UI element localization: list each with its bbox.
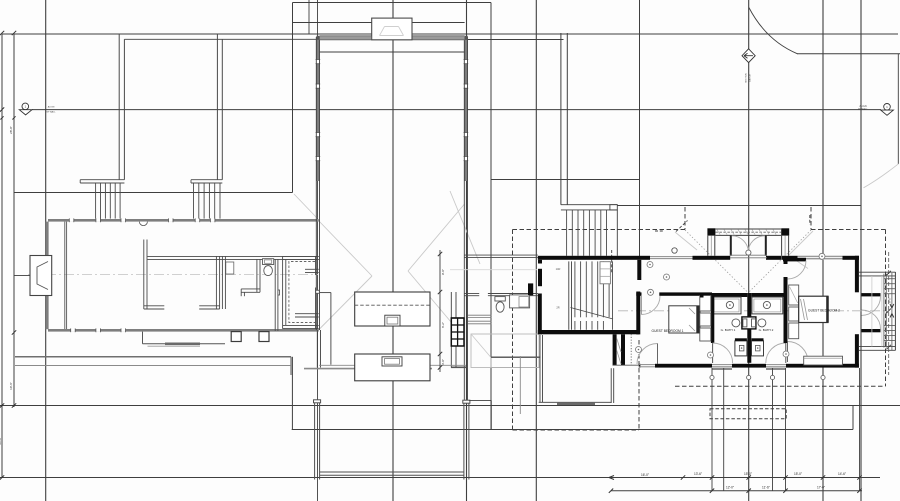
roof edge top y=2.5 (293, 2, 492, 4)
south porch line (148, 345, 201, 347)
grid line vertical x=639.5 (639, 0, 641, 256)
dashed roof line x=685 (684, 207, 686, 230)
door tag circle (819, 253, 825, 259)
bath1 west wall black (711, 293, 714, 343)
svg-text:8'-0": 8'-0" (888, 297, 892, 303)
room1 south wall left leaf (144, 305, 165, 307)
svg-text:14R: 14R (556, 267, 561, 271)
toilet bath 1 (732, 319, 740, 327)
pantry run east line (330, 293, 332, 365)
stair break line (571, 308, 614, 320)
dimension row 1 ticks (681, 475, 685, 479)
stair hall north wall black (538, 256, 650, 260)
bath1 door leaf (712, 343, 714, 363)
porch post A (231, 332, 241, 342)
dashed roof line y=229.5 right part (811, 229, 886, 231)
svg-text:15'-0": 15'-0" (744, 472, 752, 476)
svg-text:10'-6": 10'-6" (9, 382, 13, 390)
terrace rail east cap (463, 400, 470, 403)
hall top wall cap west (316, 36, 319, 40)
svg-text:W/ WALL: W/ WALL (858, 108, 869, 111)
witness circle (821, 375, 825, 379)
grid line vertical G x=748.7 (748, 0, 750, 501)
closet partition y=270 (305, 268, 319, 270)
left dim2 ticks (12, 330, 16, 334)
stair side wall x=617 (616, 210, 618, 256)
range grid (451, 318, 464, 346)
hall closet east wall black (621, 334, 625, 365)
witness line (859, 368, 861, 491)
medicine niche (742, 317, 756, 329)
deck width dim 8ft (891, 273, 893, 350)
dashed roof line x=639 lower (638, 340, 640, 430)
door tag circle (664, 274, 670, 280)
terrace edge line y=357 (15, 356, 291, 358)
svg-text:G. BATH 2: G. BATH 2 (759, 328, 774, 332)
road line y=54 top right (797, 53, 900, 55)
roof line y=39.5 right (468, 39, 564, 41)
grid line vertical F x=536.3 (535, 0, 537, 501)
chimney firebox trapezoid (380, 27, 404, 36)
stair hall east wall black lower (636, 292, 640, 335)
door tag circle (647, 262, 653, 268)
dresser bedroom2 (804, 356, 843, 365)
curb arc right edge (864, 164, 899, 188)
porch post B (259, 332, 269, 342)
landing newel cap (610, 205, 617, 210)
property line x=895.4 deck right (894, 272, 896, 350)
grid line vertical I x=861 (860, 0, 862, 501)
roof line y=39.3 left wing (124, 38, 317, 40)
terrace upper edge (304, 368, 432, 370)
south step-out wall (142, 332, 144, 344)
lower terrace south wall (539, 401, 612, 403)
vanity bath 1 (712, 297, 741, 314)
bedroom2 bath door swing (788, 342, 809, 363)
entry door tag circle (746, 250, 751, 255)
bath north wall black (711, 293, 747, 297)
north wall black segment B (693, 256, 731, 260)
svg-text:2R: 2R (556, 306, 559, 310)
bed 2 foot dark (826, 296, 829, 322)
svg-text:W/ WALL: W/ WALL (46, 110, 56, 113)
bed 2 (799, 296, 828, 322)
window gap hall east wall (464, 157, 467, 161)
setback line y=109 (32, 109, 881, 111)
island 1 sink (385, 315, 400, 326)
counter lines y=316 (468, 314, 491, 316)
bed 2 pillows (801, 299, 805, 320)
door tag circle (783, 351, 789, 357)
deck inner rails (883, 274, 885, 348)
north wall window (650, 256, 693, 258)
hall top wall gray band left (320, 36, 371, 40)
hall top interior line y=52 (320, 51, 465, 53)
hall top wall cap east (465, 36, 468, 40)
bath centre wall black (747, 293, 751, 363)
table top dark edge (491, 356, 540, 358)
dashed entry corner left (676, 221, 688, 232)
south step-out dark segment (165, 343, 200, 346)
island 2 sink (382, 357, 402, 366)
dining table diagonal (471, 334, 491, 358)
stair A risers (95, 183, 97, 219)
closet bedroom1 boxes (700, 296, 711, 312)
hall west wall edge lines (315, 37, 317, 330)
roof corner line x=292.5 (292, 3, 294, 193)
powder counter (510, 295, 530, 308)
roof hip left wing NE (294, 194, 317, 218)
deck top edge (859, 271, 896, 273)
room2 west wall (221, 256, 223, 309)
dimension line y=477.5 (0, 477, 880, 479)
window gap bottom wall (96, 329, 101, 332)
north arrow diamond (742, 49, 755, 63)
bed 1 (669, 306, 700, 333)
roof hip entry right (748, 230, 811, 293)
dashed roof line y=386 (675, 385, 886, 387)
window gap bottom wall (121, 329, 126, 332)
kitchen south line y=365.3 (319, 364, 466, 366)
pantry run top cap (319, 292, 331, 294)
grid line vertical A x=2 (1, 34, 3, 478)
svg-text:13'-6": 13'-6" (694, 472, 702, 476)
left dim ticks (0, 107, 4, 111)
entry step black (783, 258, 806, 262)
closet south thin line (613, 364, 640, 366)
bedroom1 south door swing (637, 344, 658, 365)
window gap hall west wall (316, 60, 319, 64)
closet hatch (617, 338, 621, 352)
island 1 dashed counter line (355, 304, 430, 306)
roof hip east V upper (408, 204, 465, 271)
dashed stub right of entry (809, 215, 811, 225)
window gap hall west wall (316, 84, 319, 88)
stair hall west wall black upper (538, 260, 542, 264)
room1 south wall right leaf (199, 305, 219, 307)
wc wall end cap (240, 289, 242, 296)
kitchen dim line (439, 250, 441, 372)
dashed roof line x=885.5 (885, 230, 887, 387)
entry corner post right (781, 228, 789, 235)
roof hip stair hall (450, 191, 480, 264)
bedroom2 west wall black upper (784, 260, 788, 264)
deck board lines (871, 276, 873, 347)
wardrobe bedroom2 (789, 285, 799, 305)
closet outer walls (283, 255, 319, 257)
svg-text:3'-0": 3'-0" (441, 359, 445, 365)
svg-text:6'-2": 6'-2" (441, 322, 445, 328)
interior wall line x=65 (64, 222, 66, 329)
powder room north wall B (488, 293, 538, 295)
roof hip entry left (685, 230, 748, 293)
dashed stub bedroom hall (611, 250, 613, 273)
dashed roof line y=430 (513, 429, 640, 431)
fireplace tick (14, 275, 30, 277)
bench hallway (600, 262, 610, 284)
bedroom1 north wall black (636, 292, 641, 295)
driveway arc top right (749, 8, 798, 54)
bed 1 headboard dark (696, 306, 700, 333)
roof eave line y=192.5 (14, 192, 293, 194)
black jamb stair hall door (528, 283, 533, 295)
door notch semicircle top wall (139, 222, 147, 226)
bedroom1 entry door swing (642, 296, 661, 315)
room1 west wall (143, 240, 145, 310)
north wall black segment C (766, 256, 781, 260)
kitchen island 2 / outdoor table (355, 354, 430, 381)
lavatory room2 (226, 262, 234, 274)
door tag circle (648, 289, 654, 295)
svg-text:14'-6": 14'-6" (838, 472, 846, 476)
dimension row 2 ticks (609, 489, 613, 493)
closet east wall upper (315, 256, 317, 275)
window gap top wall (210, 219, 215, 222)
hall top wall gray band right (412, 36, 465, 40)
bath1 door swing (713, 343, 733, 363)
grid line vertical B x=14 (13, 34, 15, 407)
tick y33 left (0, 31, 4, 35)
svg-text:G. BATH 1: G. BATH 1 (721, 328, 736, 332)
elevation marker left circle (22, 103, 29, 110)
roof hip east V lower (408, 271, 465, 338)
window gap hall west wall (316, 157, 319, 161)
centreline left wing (28, 274, 318, 276)
entry door post left (730, 236, 732, 256)
window gap top wall (195, 219, 200, 222)
exterior stair risers upper (566, 210, 568, 256)
deck bottom edge (859, 346, 896, 348)
fireplace chase left (30, 256, 52, 296)
powder room north wall A (465, 293, 480, 295)
dashed line left of entry (655, 230, 665, 232)
roof line x=291.7 lower (290, 357, 292, 375)
south wall window 1 (639, 364, 655, 366)
south wall window 3 (766, 364, 786, 366)
wc foot wall (241, 288, 260, 290)
closet bedroom1 west wall black (700, 293, 704, 298)
svg-text:GUEST BEDROOM 1: GUEST BEDROOM 1 (652, 329, 684, 333)
witness line (772, 368, 774, 491)
tick marks below y109 (0, 116, 3, 119)
hall top wall edge lines (320, 35, 465, 37)
toilet bath 2 (758, 319, 766, 327)
bridge rails (560, 33, 562, 205)
dashed skylight rect (710, 409, 786, 419)
hall east wall lower (463, 330, 465, 400)
guest wing north wall black (782, 256, 860, 260)
powder toilet tank (495, 297, 505, 301)
deck treads bottom (884, 325, 895, 327)
entry door post right (765, 236, 767, 256)
roof hip guest SE (790, 256, 809, 269)
toilet bowl (264, 266, 273, 276)
svg-text:11'-6": 11'-6" (762, 485, 770, 489)
entry side wall right (781, 236, 783, 256)
svg-text:DATUM: DATUM (749, 74, 752, 82)
closet east wall lower (315, 288, 317, 329)
shower bath 1 (735, 341, 747, 356)
upper level stub x=309 (308, 0, 310, 34)
svg-text:36'-0": 36'-0" (0, 437, 2, 445)
wc west wall (256, 259, 258, 292)
east French door swing arcs (862, 296, 881, 315)
stair risers lower run (574, 321, 576, 330)
bath2 door swing (766, 343, 786, 363)
east French door leaf upper (862, 293, 881, 296)
toilet tank (263, 259, 274, 265)
bedroom2 entry door swing (788, 261, 807, 280)
grid line y=405.5 (0, 405, 900, 407)
lower terrace west wall (539, 335, 541, 402)
window gap bottom wall (71, 329, 76, 332)
stair B risers (193, 183, 195, 219)
stair hall west wall black lower (538, 294, 542, 335)
right dim line x=888.7 (888, 252, 890, 375)
long roof line y=34 (2, 33, 898, 35)
closet partition y=315 (295, 313, 319, 315)
entry top band (715, 228, 781, 230)
witness circle (747, 375, 751, 379)
grid line vertical E x=466.5 (466, 0, 468, 501)
witness circle (710, 375, 714, 379)
shower bath 2 (752, 341, 764, 356)
door tag circle (708, 352, 714, 358)
counter end dark segment (451, 366, 467, 368)
dashed roof line y=229.5 left part (513, 229, 686, 231)
roof hip guest SW (675, 232, 697, 250)
hall west wall band upper (316, 37, 319, 181)
column circle left of entry (672, 248, 677, 253)
dining table (471, 334, 539, 368)
entry double door swings (732, 236, 749, 253)
left wing bottom wall (48, 329, 319, 332)
dashed roof line x=811 (810, 207, 812, 230)
grid line vertical H x=823 (822, 0, 824, 501)
entry side wall left (707, 236, 709, 256)
roof hip apex V upper (318, 220, 373, 277)
witness line (711, 368, 713, 491)
stair risers upper run (574, 261, 576, 317)
stair hall west wall black mid (538, 269, 542, 286)
window gap top wall (96, 219, 101, 222)
counter lines y=322 (468, 320, 491, 322)
south wall window 2 (712, 364, 732, 366)
entry threshold (730, 254, 767, 256)
dimension row 2 line (611, 490, 862, 492)
window gap hall east wall (464, 84, 467, 88)
left wing top wall (48, 219, 319, 222)
entry corner post left (707, 228, 715, 235)
kitchen wall lines east (450, 292, 452, 368)
stair hall east wall black upper (637, 260, 641, 280)
roof hip entry outer right (789, 231, 813, 255)
svg-text:GUEST BEDROOM 2: GUEST BEDROOM 2 (808, 308, 840, 312)
firebox trapezoid (37, 262, 48, 290)
witness line (785, 368, 787, 491)
terrace line y=429.5 (292, 429, 853, 431)
north wall window right (798, 256, 843, 260)
hall east wall band upper (464, 37, 467, 181)
roof outline y=179.5 upper right block (491, 179, 640, 181)
svg-text:15'-0": 15'-0" (794, 472, 802, 476)
east French door leaf lower (862, 329, 881, 332)
elevation marker left triangle (19, 110, 32, 115)
stair hall south wall black (538, 330, 639, 334)
window gap top wall (121, 219, 126, 222)
elevation marker right circle (884, 104, 891, 111)
window gap hall east wall (464, 60, 467, 64)
terrace wall stair B (216, 34, 218, 180)
kitchen island 1 (355, 292, 430, 326)
window gap top wall (69, 219, 74, 222)
entry band hatch (717, 230, 720, 235)
terrace corner x=853 (852, 406, 854, 430)
svg-text:28'-0": 28'-0" (9, 126, 13, 134)
bridge landing (561, 204, 617, 206)
door stop notch (278, 290, 280, 295)
faint eave line y=269.7 (450, 269, 537, 271)
hall-bath boundary double line (465, 254, 538, 256)
terrace wall stair A (118, 34, 120, 180)
grid line vertical x=317.5 (317, 0, 319, 501)
closet dashed rod (289, 262, 315, 323)
window gap hall west wall (316, 133, 319, 137)
grid line vertical D x=393 (392, 0, 394, 501)
svg-text:9'-0": 9'-0" (441, 269, 445, 275)
svg-text:17'-0": 17'-0" (817, 485, 825, 489)
stair B landing (191, 179, 222, 181)
svg-text:16'-0": 16'-0" (641, 473, 649, 477)
left wing west wall (46, 222, 49, 330)
witness circle (770, 375, 774, 379)
terrace rail south (320, 471, 464, 473)
window gap top wall (169, 219, 174, 222)
hall closet west wall black (613, 334, 617, 365)
deck treads top (884, 278, 895, 280)
dashed roof line x=512.5 (512, 230, 514, 431)
roof hip apex V lower (318, 276, 373, 331)
upper level line y=22.5 (293, 22, 465, 24)
centreline guest wing (618, 310, 888, 312)
stair stringer walls (568, 261, 570, 329)
interior wall band y=257 master (148, 255, 319, 257)
guest wing south wall black segments (639, 364, 641, 368)
terrace rail east (463, 403, 465, 479)
svg-text:ALIGN: ALIGN (48, 106, 55, 109)
chimney box (372, 18, 412, 40)
lower terrace south dark segment (557, 403, 595, 405)
dining table inner (491, 358, 539, 368)
terrace edge line y=365.5 (15, 365, 291, 367)
dim arrow y477 left (609, 476, 614, 478)
guest wing east wall black lower (855, 334, 859, 367)
svg-text:SECTION: SECTION (746, 73, 748, 83)
window gap hall east wall (464, 133, 467, 137)
bed 1 pillow marks (689, 308, 695, 314)
vanity bath 2 (752, 297, 783, 314)
terrace rail west cap (314, 400, 321, 403)
room1 east wall (215, 256, 217, 309)
stair edge x=612.5 (612, 261, 614, 329)
elevation marker right triangle (881, 110, 894, 115)
hall wall x=276 (274, 259, 276, 331)
guest wing east wall black upper (855, 256, 859, 292)
patio corner L (469, 399, 491, 401)
roof line x=491 (490, 3, 492, 431)
hall west wall lower (316, 330, 318, 368)
closet dotted line (630, 334, 632, 365)
